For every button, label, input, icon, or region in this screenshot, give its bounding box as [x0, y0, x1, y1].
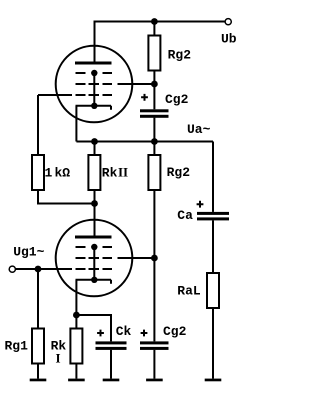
svg-text:RaL: RaL: [177, 284, 201, 299]
svg-text:Ub: Ub: [221, 32, 237, 47]
svg-text:kΩ: kΩ: [55, 166, 71, 181]
svg-text:Ug1~: Ug1~: [13, 245, 44, 260]
svg-text:Ua~: Ua~: [187, 122, 211, 137]
svg-text:I: I: [56, 351, 61, 366]
svg-text:Cg2: Cg2: [165, 92, 189, 107]
svg-text:Rg2: Rg2: [168, 47, 192, 62]
svg-text:1: 1: [45, 166, 53, 181]
svg-text:Cg2: Cg2: [163, 324, 187, 339]
svg-text:Ck: Ck: [116, 324, 132, 339]
svg-text:Rg1: Rg1: [5, 338, 29, 353]
svg-text:Ca: Ca: [177, 208, 193, 223]
svg-text:II: II: [118, 165, 128, 180]
svg-text:Rk: Rk: [102, 166, 118, 181]
svg-text:Rg2: Rg2: [167, 165, 191, 180]
